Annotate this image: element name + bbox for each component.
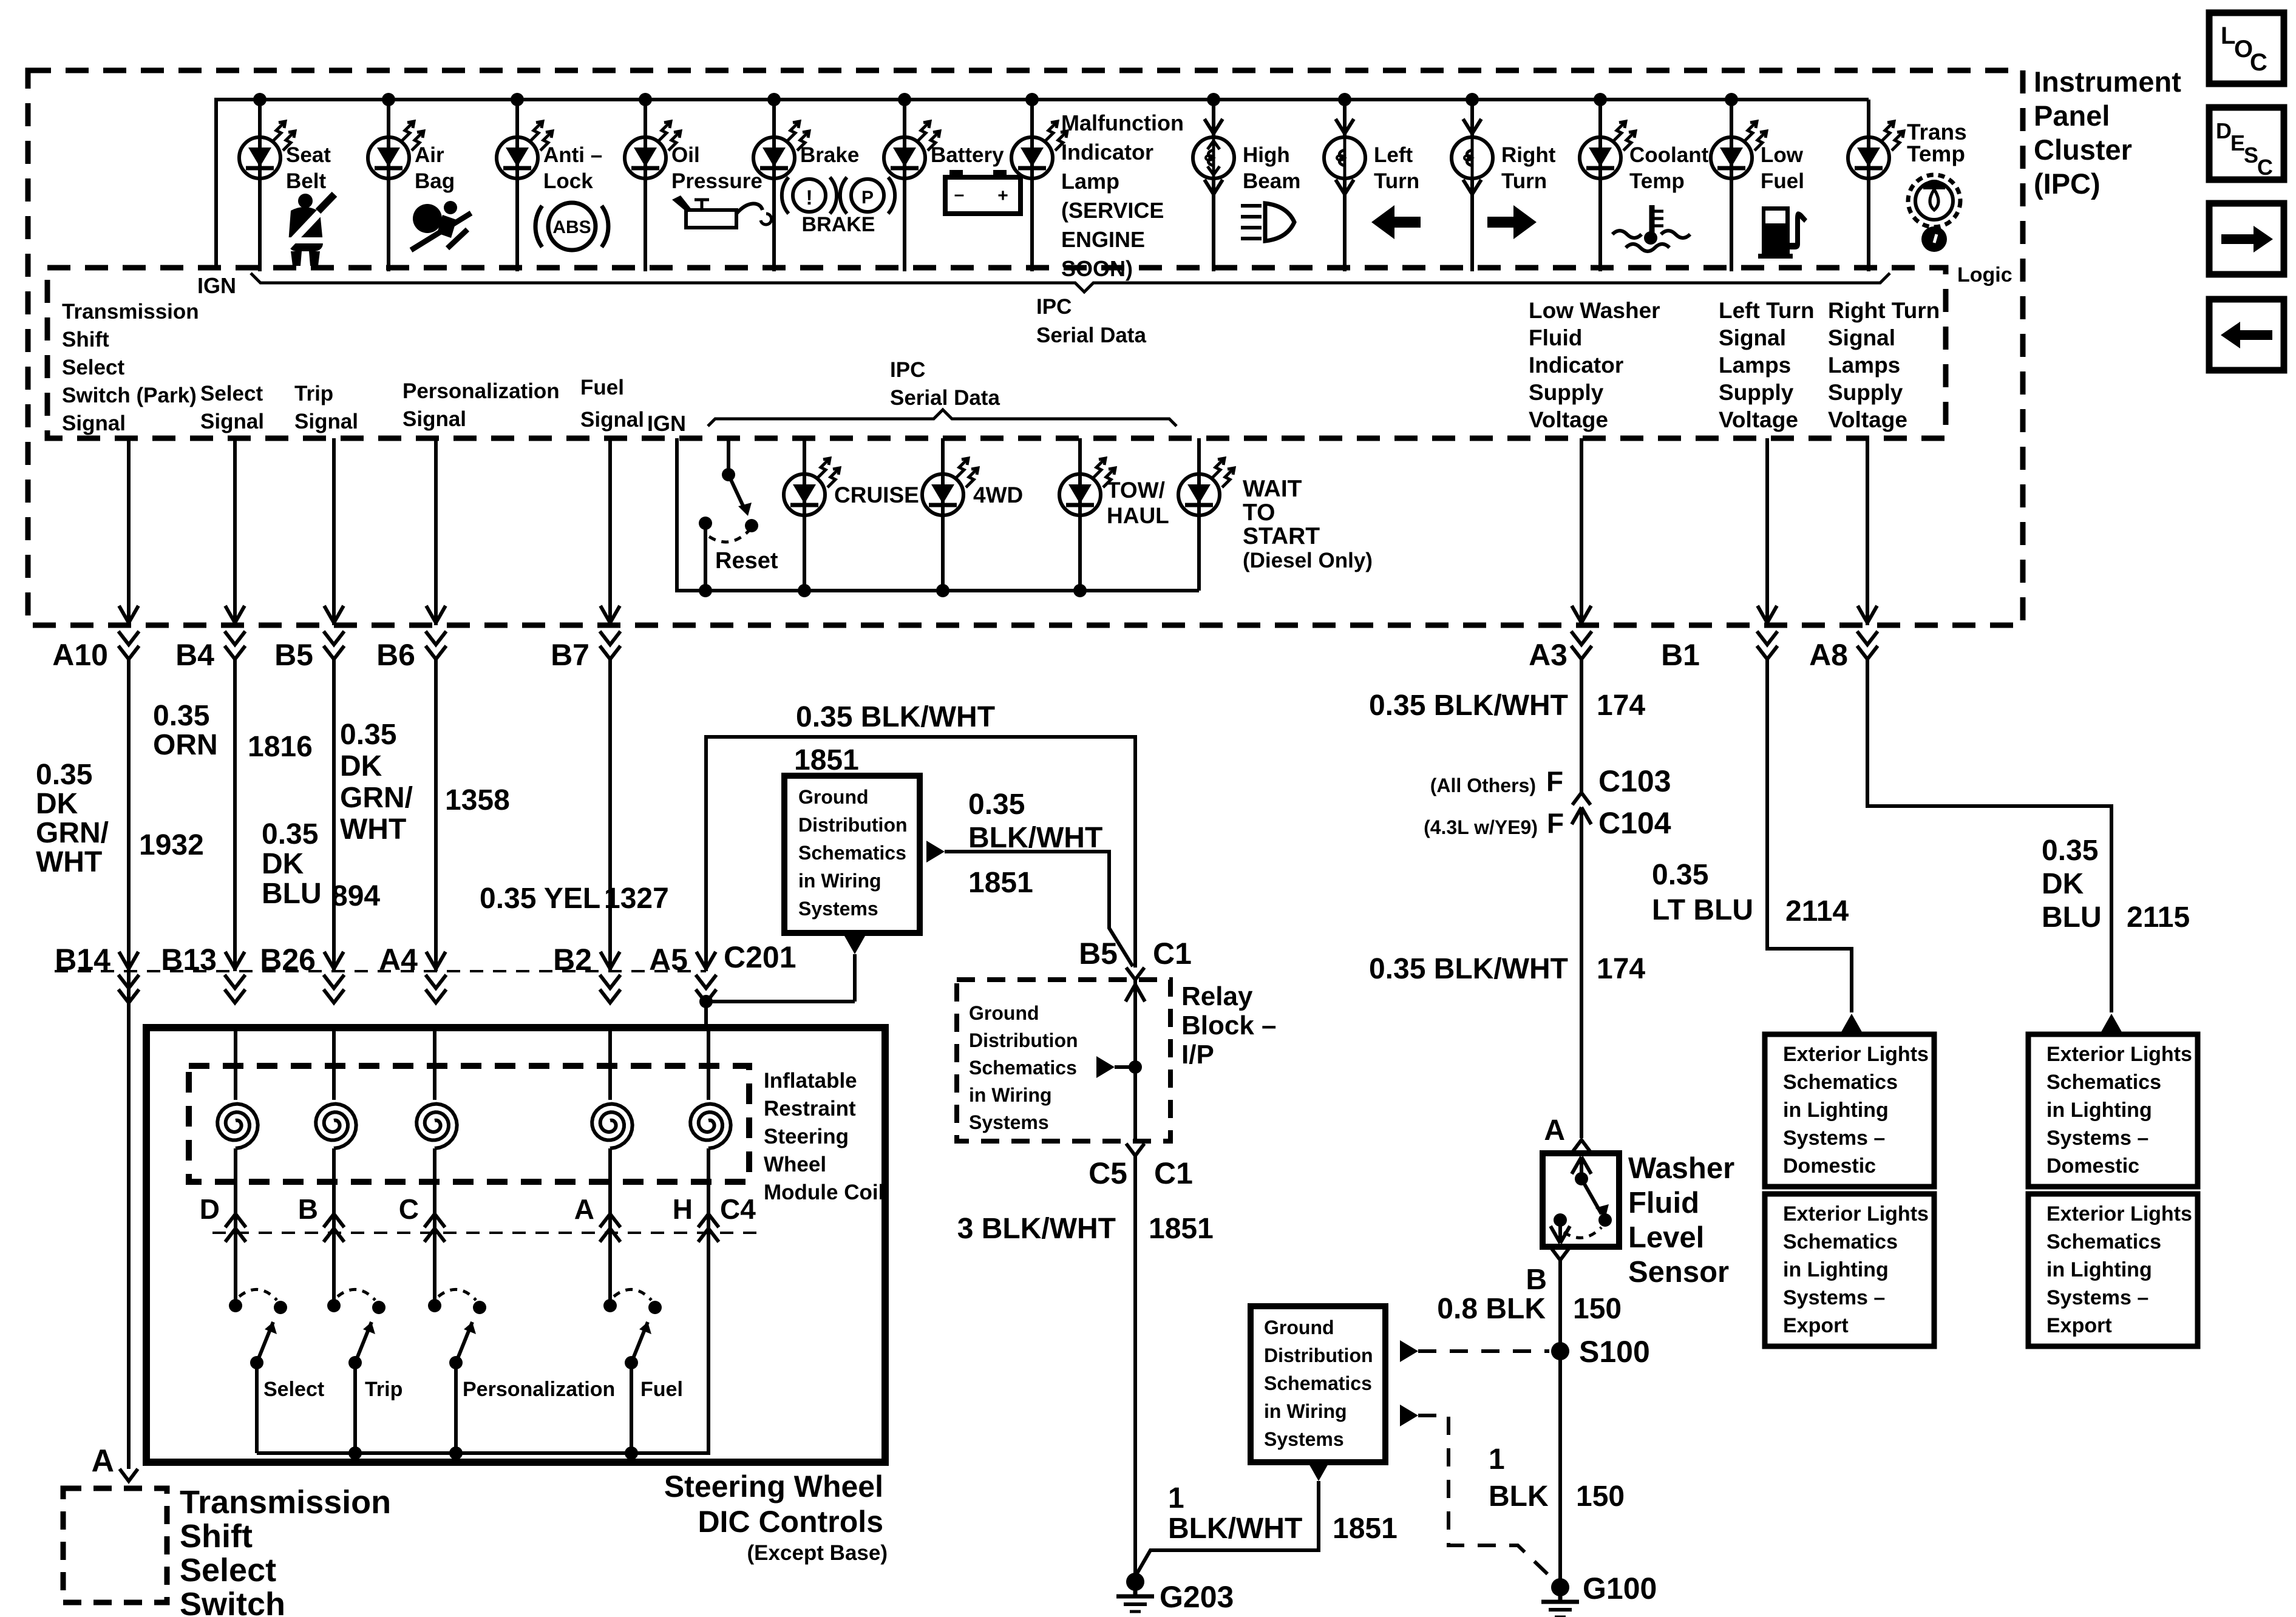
wire: A5/C201 drop (696, 952, 716, 1028)
svg-text:Module Coil: Module Coil (764, 1181, 884, 1204)
svg-text:in Lighting: in Lighting (2046, 1258, 2152, 1281)
coil H (690, 1028, 731, 1242)
svg-text:Right Turn: Right Turn (1828, 298, 1940, 323)
wire: Right Turn indicator feed (1470, 100, 1474, 271)
svg-text:Indicator: Indicator (1529, 353, 1623, 378)
pin label B6 (376, 638, 415, 672)
svg-text:B: B (1526, 1264, 1547, 1296)
pin label D (200, 1193, 220, 1225)
label Trip Signal (294, 382, 358, 433)
icon: ABS (535, 203, 608, 250)
svg-text:894: 894 (331, 880, 380, 912)
svg-text:IGN: IGN (647, 411, 686, 436)
wire: A10 exit (118, 438, 139, 659)
pin label B (298, 1193, 318, 1225)
svg-text:B5: B5 (1079, 937, 1118, 971)
label Air Bag (415, 143, 455, 193)
svg-text:Low: Low (1761, 143, 1804, 167)
svg-text:in Lighting: in Lighting (2046, 1099, 2152, 1122)
svg-text:Turn: Turn (1501, 169, 1547, 193)
svg-text:–: – (954, 185, 965, 205)
pin label A (574, 1193, 594, 1225)
svg-text:Fuel: Fuel (580, 376, 624, 399)
svg-text:0.35: 0.35 (340, 719, 396, 751)
svg-text:Trip: Trip (365, 1378, 402, 1401)
svg-text:Low Washer: Low Washer (1529, 298, 1660, 323)
svg-text:Air: Air (415, 143, 444, 167)
svg-text:D: D (200, 1193, 220, 1225)
svg-text:+: + (997, 186, 1008, 206)
branch: ground ref to 1851 wire (926, 841, 1133, 966)
svg-text:Lamp: Lamp (1061, 169, 1119, 194)
dashed branch to G100 (1400, 1405, 1549, 1576)
label Left Turn Signal Lamps Supply Voltage (1719, 298, 1815, 432)
coil B (316, 1028, 356, 1242)
wire: DIC switch common bus (257, 1242, 708, 1460)
svg-text:C: C (2257, 155, 2273, 180)
svg-text:WHT: WHT (340, 813, 406, 846)
svg-text:Restraint: Restraint (764, 1097, 856, 1120)
svg-text:Domestic: Domestic (2046, 1154, 2139, 1178)
label High Beam (1243, 143, 1300, 193)
svg-text:Steering Wheel: Steering Wheel (664, 1470, 883, 1503)
coil D (217, 1028, 258, 1242)
svg-text:Level: Level (1628, 1221, 1704, 1254)
svg-text:WHT: WHT (36, 846, 102, 878)
svg-text:A: A (574, 1193, 594, 1225)
button next arrow (2209, 203, 2284, 274)
wire: 0.35 BLK/WHT 1851 run (706, 737, 1135, 971)
svg-text:0.35: 0.35 (153, 700, 209, 732)
svg-text:Lamps: Lamps (1719, 353, 1791, 378)
svg-text:1358: 1358 (445, 784, 510, 816)
connector chevron A8 (1857, 631, 1878, 659)
icon: oil can (672, 195, 772, 228)
svg-text:1932: 1932 (139, 829, 204, 861)
label Coolant Temp (1629, 143, 1709, 193)
wire: Anti-Lock indicator feed (515, 100, 519, 271)
svg-text:IPC: IPC (890, 358, 925, 382)
pin label A3 (1529, 638, 1567, 672)
connector line C201 (dashed) (55, 970, 706, 972)
svg-text:3 BLK/WHT: 3 BLK/WHT (957, 1213, 1116, 1245)
svg-text:Select: Select (263, 1378, 324, 1401)
wire: 3 BLK/WHT 1851 to G203 (1133, 1156, 1137, 1578)
label Anti-Lock (543, 143, 602, 193)
wire label 0.8 BLK 150 (1437, 1293, 1622, 1325)
svg-text:Exterior Lights: Exterior Lights (2046, 1043, 2192, 1066)
svg-text:ORN: ORN (153, 729, 218, 761)
svg-text:Temp: Temp (1907, 141, 1965, 166)
svg-text:!: ! (806, 186, 812, 209)
svg-text:Fuel: Fuel (1761, 169, 1804, 193)
svg-text:START: START (1243, 523, 1320, 549)
ground G100 (1541, 1578, 1579, 1617)
wire label 0.35 BLK/WHT 1851 (branch) (968, 788, 1102, 899)
switch: Select (229, 1242, 287, 1453)
svg-text:Signal: Signal (62, 412, 126, 435)
svg-text:CRUISE: CRUISE (834, 483, 919, 507)
svg-text:Left Turn: Left Turn (1719, 298, 1815, 323)
svg-text:Instrument: Instrument (2034, 66, 2181, 98)
IPC logic inner dashed box (47, 268, 1946, 438)
wire: column x=212 to C201 (118, 659, 139, 1003)
connector chevron A3 (1571, 631, 1592, 659)
Transmission Shift Select Switch dashed box (63, 1488, 167, 1602)
pin label B14 (55, 943, 110, 977)
svg-text:Select: Select (180, 1552, 276, 1588)
label IPC Serial Data (row1) (1036, 295, 1146, 347)
svg-text:Fluid: Fluid (1529, 325, 1582, 350)
wire: Air Bag indicator feed (387, 100, 390, 271)
svg-text:Supply: Supply (1719, 380, 1794, 405)
label Fuel (640, 1378, 683, 1401)
svg-text:Distribution: Distribution (1264, 1344, 1373, 1366)
svg-text:Switch: Switch (180, 1586, 285, 1617)
svg-text:Washer: Washer (1628, 1152, 1734, 1185)
label Low Washer Fluid Indicator Supply Voltage (1529, 298, 1660, 432)
icon: seat belt person (283, 194, 335, 266)
label Transmission Shift Select Switch (180, 1484, 391, 1617)
svg-text:Systems: Systems (798, 898, 878, 920)
wire through relay block (1126, 980, 1145, 1141)
svg-text:G100: G100 (1583, 1571, 1657, 1605)
reference box: Ground Distribution Schematics in Wiring Systems (lower) (1251, 1306, 1385, 1462)
svg-text:Voltage: Voltage (1828, 407, 1907, 432)
svg-text:1: 1 (1489, 1443, 1505, 1476)
wire: Coolant Temp indicator feed (1598, 100, 1602, 271)
connector line C4 (dashed) (212, 1232, 759, 1234)
svg-text:1851: 1851 (968, 867, 1033, 899)
pin label A10 (52, 638, 108, 672)
pin label C201 (724, 940, 796, 974)
svg-text:Domestic: Domestic (1783, 1154, 1876, 1178)
svg-text:B7: B7 (551, 638, 589, 672)
svg-text:Lock: Lock (543, 169, 593, 193)
svg-text:A5: A5 (649, 943, 688, 977)
svg-text:Ground: Ground (798, 786, 869, 808)
svg-text:Exterior Lights: Exterior Lights (1783, 1202, 1929, 1225)
reference box: Exterior Lights Export (left) (1765, 1194, 1934, 1346)
label Low Fuel (1761, 143, 1804, 193)
svg-text:Signal: Signal (294, 410, 358, 433)
svg-text:Panel: Panel (2034, 100, 2110, 132)
splice S100 (1551, 1342, 1569, 1360)
bulb indicator: Right Turn Lamp (1452, 119, 1493, 194)
wire: column x=387 to C201 (225, 659, 245, 1003)
wire label 0.35 BLK/WHT 174 (upper) (1369, 690, 1645, 722)
pin label B5 (274, 638, 313, 672)
svg-text:C103: C103 (1598, 764, 1671, 798)
svg-text:IPC: IPC (1036, 295, 1072, 319)
svg-text:Coolant: Coolant (1629, 143, 1709, 167)
svg-text:Left: Left (1374, 143, 1413, 167)
label Transmission Shift Select Switch (Park) Signal (62, 300, 199, 435)
svg-text:C1: C1 (1153, 937, 1192, 971)
svg-text:Block –: Block – (1181, 1011, 1277, 1040)
svg-text:HAUL: HAUL (1107, 503, 1169, 528)
svg-text:BLK/WHT: BLK/WHT (1168, 1513, 1302, 1545)
svg-text:Right: Right (1501, 143, 1556, 167)
wire label 0.35 LT BLU 2114 (1652, 859, 1849, 927)
svg-text:DK: DK (262, 848, 304, 880)
svg-text:H: H (673, 1193, 693, 1225)
svg-text:BLK: BLK (1489, 1480, 1549, 1513)
svg-text:0.35 YEL: 0.35 YEL (480, 883, 600, 915)
wire: B5 exit (324, 438, 344, 659)
wire: B4 exit (225, 438, 245, 659)
wire label 0.35 DK GRN/WHT 1932 (A10) (36, 759, 204, 878)
label Inflatable Restraint Steering Wheel Module Coil (764, 1069, 884, 1204)
label Relay Block - I/P (1181, 981, 1277, 1070)
svg-text:C5: C5 (1089, 1156, 1127, 1190)
svg-text:DK: DK (340, 750, 382, 782)
svg-text:Wheel: Wheel (764, 1153, 826, 1176)
label G203 (1160, 1580, 1234, 1614)
switch: Trip (327, 1242, 385, 1453)
svg-text:0.35: 0.35 (2042, 835, 2098, 867)
wire: Left Turn indicator feed (1343, 100, 1347, 271)
Steering Wheel DIC Controls box (146, 1028, 885, 1462)
icon: brake warning (782, 177, 895, 236)
svg-text:Ground: Ground (969, 1002, 1039, 1024)
svg-text:TOW/: TOW/ (1107, 478, 1165, 503)
Washer Fluid Level Sensor box (1543, 1153, 1619, 1247)
svg-text:B4: B4 (175, 638, 214, 672)
svg-text:WAIT: WAIT (1243, 476, 1302, 502)
wire: Left Turn Supply (B1) inside IPC (1758, 438, 1777, 625)
LED indicator: Oil Pressure (625, 121, 681, 178)
wire: column x=550 to C201 (324, 659, 344, 1003)
wire: column x=1005 to C201 (600, 659, 620, 1003)
svg-text:in Lighting: in Lighting (1783, 1258, 1889, 1281)
off-page triangle to exterior lights (domestic, right pair) (2101, 1014, 2122, 1032)
svg-text:Signal: Signal (402, 407, 466, 431)
label Oil Pressure (671, 143, 763, 193)
connector chevron B1 (1757, 631, 1778, 659)
wire: Seat Belt indicator feed (258, 100, 262, 271)
wire: ignition feed bus (216, 100, 1869, 268)
svg-text:Shift: Shift (180, 1518, 253, 1554)
switch: Fuel (603, 1242, 662, 1453)
LED indicator: CRUISE (784, 438, 840, 591)
svg-text:S: S (2244, 143, 2258, 168)
svg-text:Schematics: Schematics (1264, 1372, 1372, 1394)
svg-text:Signal: Signal (1828, 325, 1895, 350)
LED indicator: Anti-Lock (497, 121, 552, 178)
coil A (592, 1028, 632, 1242)
svg-text:Inflatable: Inflatable (764, 1069, 857, 1093)
Inflatable Restraint coil dashed box (189, 1066, 749, 1182)
label Steering Wheel DIC Controls (664, 1470, 888, 1565)
pin label A8 (1809, 638, 1848, 672)
svg-text:Battery: Battery (931, 143, 1004, 167)
wire label 0.35 BLK/WHT 174 (lower) (1369, 953, 1645, 985)
svg-text:Indicator: Indicator (1061, 140, 1153, 164)
wire: Brake indicator feed (772, 100, 776, 271)
svg-text:in Wiring: in Wiring (969, 1084, 1052, 1106)
svg-text:(4.3L w/YE9): (4.3L w/YE9) (1424, 816, 1538, 838)
svg-text:0.35: 0.35 (968, 788, 1025, 821)
off-page triangle to exterior lights (domestic, left pair) (1841, 1014, 1862, 1032)
svg-text:in Lighting: in Lighting (1783, 1099, 1889, 1122)
pin label A5 (649, 943, 688, 977)
label Seat Belt (286, 143, 331, 193)
svg-text:Voltage: Voltage (1529, 407, 1608, 432)
reference box: Exterior Lights Export (right) (2028, 1194, 2198, 1346)
label 4WD (973, 483, 1023, 507)
reference box: Ground Distribution Schematics in Wiring Systems (upper) (784, 776, 920, 933)
wire: MIL indicator feed (1030, 100, 1034, 271)
wire: High Beam indicator feed (1212, 100, 1215, 271)
pin label B1 (1661, 638, 1700, 672)
label Instrument Panel Cluster (IPC) (2034, 66, 2181, 200)
pin label B13 (161, 943, 217, 977)
wire label 0.35 YEL 1327 (B7) (480, 883, 669, 915)
LED indicator: Seat Belt (239, 121, 295, 178)
svg-text:Cluster: Cluster (2034, 134, 2132, 166)
connector C5/C1 below relay block (1126, 1144, 1144, 1156)
svg-text:Personalization: Personalization (463, 1378, 615, 1401)
svg-text:Oil: Oil (671, 143, 700, 167)
pin label A (washer sensor) (1544, 1114, 1565, 1147)
LED indicator: Air Bag (368, 121, 424, 178)
svg-text:LT BLU: LT BLU (1652, 894, 1753, 926)
svg-text:C201: C201 (724, 940, 796, 974)
svg-text:1851: 1851 (794, 744, 859, 776)
svg-text:in Wiring: in Wiring (1264, 1400, 1347, 1422)
label Battery (931, 143, 1004, 167)
label Personalization Signal (402, 379, 560, 431)
LED indicator: 4WD (922, 438, 978, 591)
svg-text:Pressure: Pressure (671, 169, 763, 193)
junction dots row2 bus (798, 584, 1087, 597)
svg-text:Beam: Beam (1243, 169, 1300, 193)
svg-text:Reset: Reset (715, 548, 778, 574)
svg-text:B13: B13 (161, 943, 217, 977)
LED indicator: Trans Temp (1848, 121, 1904, 178)
label Right Turn (1501, 143, 1556, 193)
svg-text:A: A (91, 1443, 114, 1479)
pin label C4 (720, 1193, 756, 1225)
svg-text:DK: DK (36, 788, 78, 820)
svg-text:Anti –: Anti – (543, 143, 602, 167)
wire: B1 0.35 LT BLU 2114 (1767, 659, 1852, 1012)
svg-text:F: F (1547, 807, 1564, 839)
svg-text:Malfunction: Malfunction (1061, 110, 1184, 135)
wire: column x=718 to C201 (426, 659, 446, 1003)
LED indicator: Malfunction Indicator Lamp (1011, 121, 1067, 178)
pin label A (transmission switch) (91, 1443, 114, 1479)
svg-text:0.35 BLK/WHT: 0.35 BLK/WHT (1369, 953, 1568, 985)
switch: Reset (699, 438, 758, 597)
svg-text:(IPC): (IPC) (2034, 168, 2101, 200)
svg-text:2115: 2115 (2127, 901, 2190, 934)
wire: IGN drop row2 (677, 438, 1199, 591)
wire: Low Washer Fluid (A3) inside IPC (1572, 438, 1591, 625)
LED indicator: Low Fuel (1711, 121, 1767, 178)
label Personalization (463, 1378, 615, 1401)
svg-text:High: High (1243, 143, 1290, 167)
svg-text:I/P: I/P (1181, 1040, 1214, 1070)
label (All Others) F C103 (1430, 764, 1671, 798)
wire label 0.35 DK GRN/WHT 1358 (B6) (340, 719, 510, 846)
svg-text:Schematics: Schematics (1783, 1230, 1898, 1253)
svg-text:Exterior Lights: Exterior Lights (1783, 1043, 1929, 1066)
svg-text:0.35 BLK/WHT: 0.35 BLK/WHT (1369, 690, 1568, 722)
svg-text:TO: TO (1243, 500, 1275, 526)
svg-text:B26: B26 (260, 943, 316, 977)
svg-text:F: F (1546, 765, 1563, 797)
svg-text:Signal: Signal (200, 410, 264, 433)
svg-text:Export: Export (1783, 1314, 1849, 1337)
pin label B (washer sensor) (1526, 1264, 1547, 1296)
svg-text:Trans: Trans (1907, 120, 1967, 144)
label (4.3L w/YE9) F C104 (1424, 806, 1671, 840)
dashed branch to S100 (1400, 1340, 1549, 1362)
svg-text:Systems –: Systems – (1783, 1127, 1885, 1150)
connector chevron below washer sensor (1551, 1248, 1569, 1260)
svg-text:in Wiring: in Wiring (798, 870, 881, 892)
svg-text:Transmission: Transmission (180, 1484, 391, 1520)
button DESC (2209, 107, 2284, 180)
svg-text:B14: B14 (55, 943, 110, 977)
icon: fuel pump (1758, 206, 1807, 259)
svg-text:Schematics: Schematics (969, 1057, 1077, 1079)
pin label B2 (553, 943, 592, 977)
svg-text:Serial Data: Serial Data (890, 386, 1000, 410)
svg-text:C1: C1 (1154, 1156, 1193, 1190)
svg-text:Systems: Systems (1264, 1428, 1344, 1450)
LED indicator: Battery (884, 121, 940, 178)
bulb indicator: High Beam (1193, 119, 1234, 194)
bracket: IPC Serial Data (row2) (708, 410, 1177, 426)
pin label C5 (1089, 1156, 1127, 1190)
icon: high beam lamp (1241, 203, 1294, 241)
off-page triangle below lower ground box (1137, 1463, 1329, 1573)
svg-text:B6: B6 (376, 638, 415, 672)
wire: Low Fuel indicator feed (1730, 100, 1733, 271)
svg-text:D: D (2216, 118, 2232, 143)
label Logic (1957, 263, 2012, 286)
svg-text:P: P (861, 188, 874, 208)
pin label C1 (bottom) (1154, 1156, 1193, 1190)
svg-text:0.35: 0.35 (262, 818, 318, 850)
label Fuel Signal (580, 376, 644, 432)
svg-text:1851: 1851 (1333, 1513, 1398, 1545)
svg-text:Seat: Seat (286, 143, 331, 167)
svg-text:Shift: Shift (62, 328, 109, 351)
label Left Turn (1374, 143, 1419, 193)
label Brake (800, 143, 859, 167)
svg-text:Serial Data: Serial Data (1036, 324, 1146, 347)
label Reset (715, 548, 778, 574)
label Trans Temp (1907, 120, 1967, 166)
arrow from schematics text to wire (1096, 1056, 1135, 1078)
label S100 (1579, 1335, 1650, 1369)
button back arrow (2209, 299, 2284, 370)
LED indicator: Coolant Temp (1580, 121, 1635, 178)
svg-text:Signal: Signal (580, 408, 644, 432)
pin label A4 (379, 943, 418, 977)
svg-text:1: 1 (1168, 1482, 1184, 1514)
svg-text:1327: 1327 (604, 883, 669, 915)
wire label 1 BLK/WHT 1851 (1168, 1482, 1398, 1545)
svg-text:1851: 1851 (1149, 1213, 1214, 1245)
Relay Block I/P dashed box (957, 980, 1170, 1141)
svg-text:C4: C4 (720, 1193, 756, 1225)
reference box: Exterior Lights Domestic (left) (1765, 1034, 1934, 1187)
